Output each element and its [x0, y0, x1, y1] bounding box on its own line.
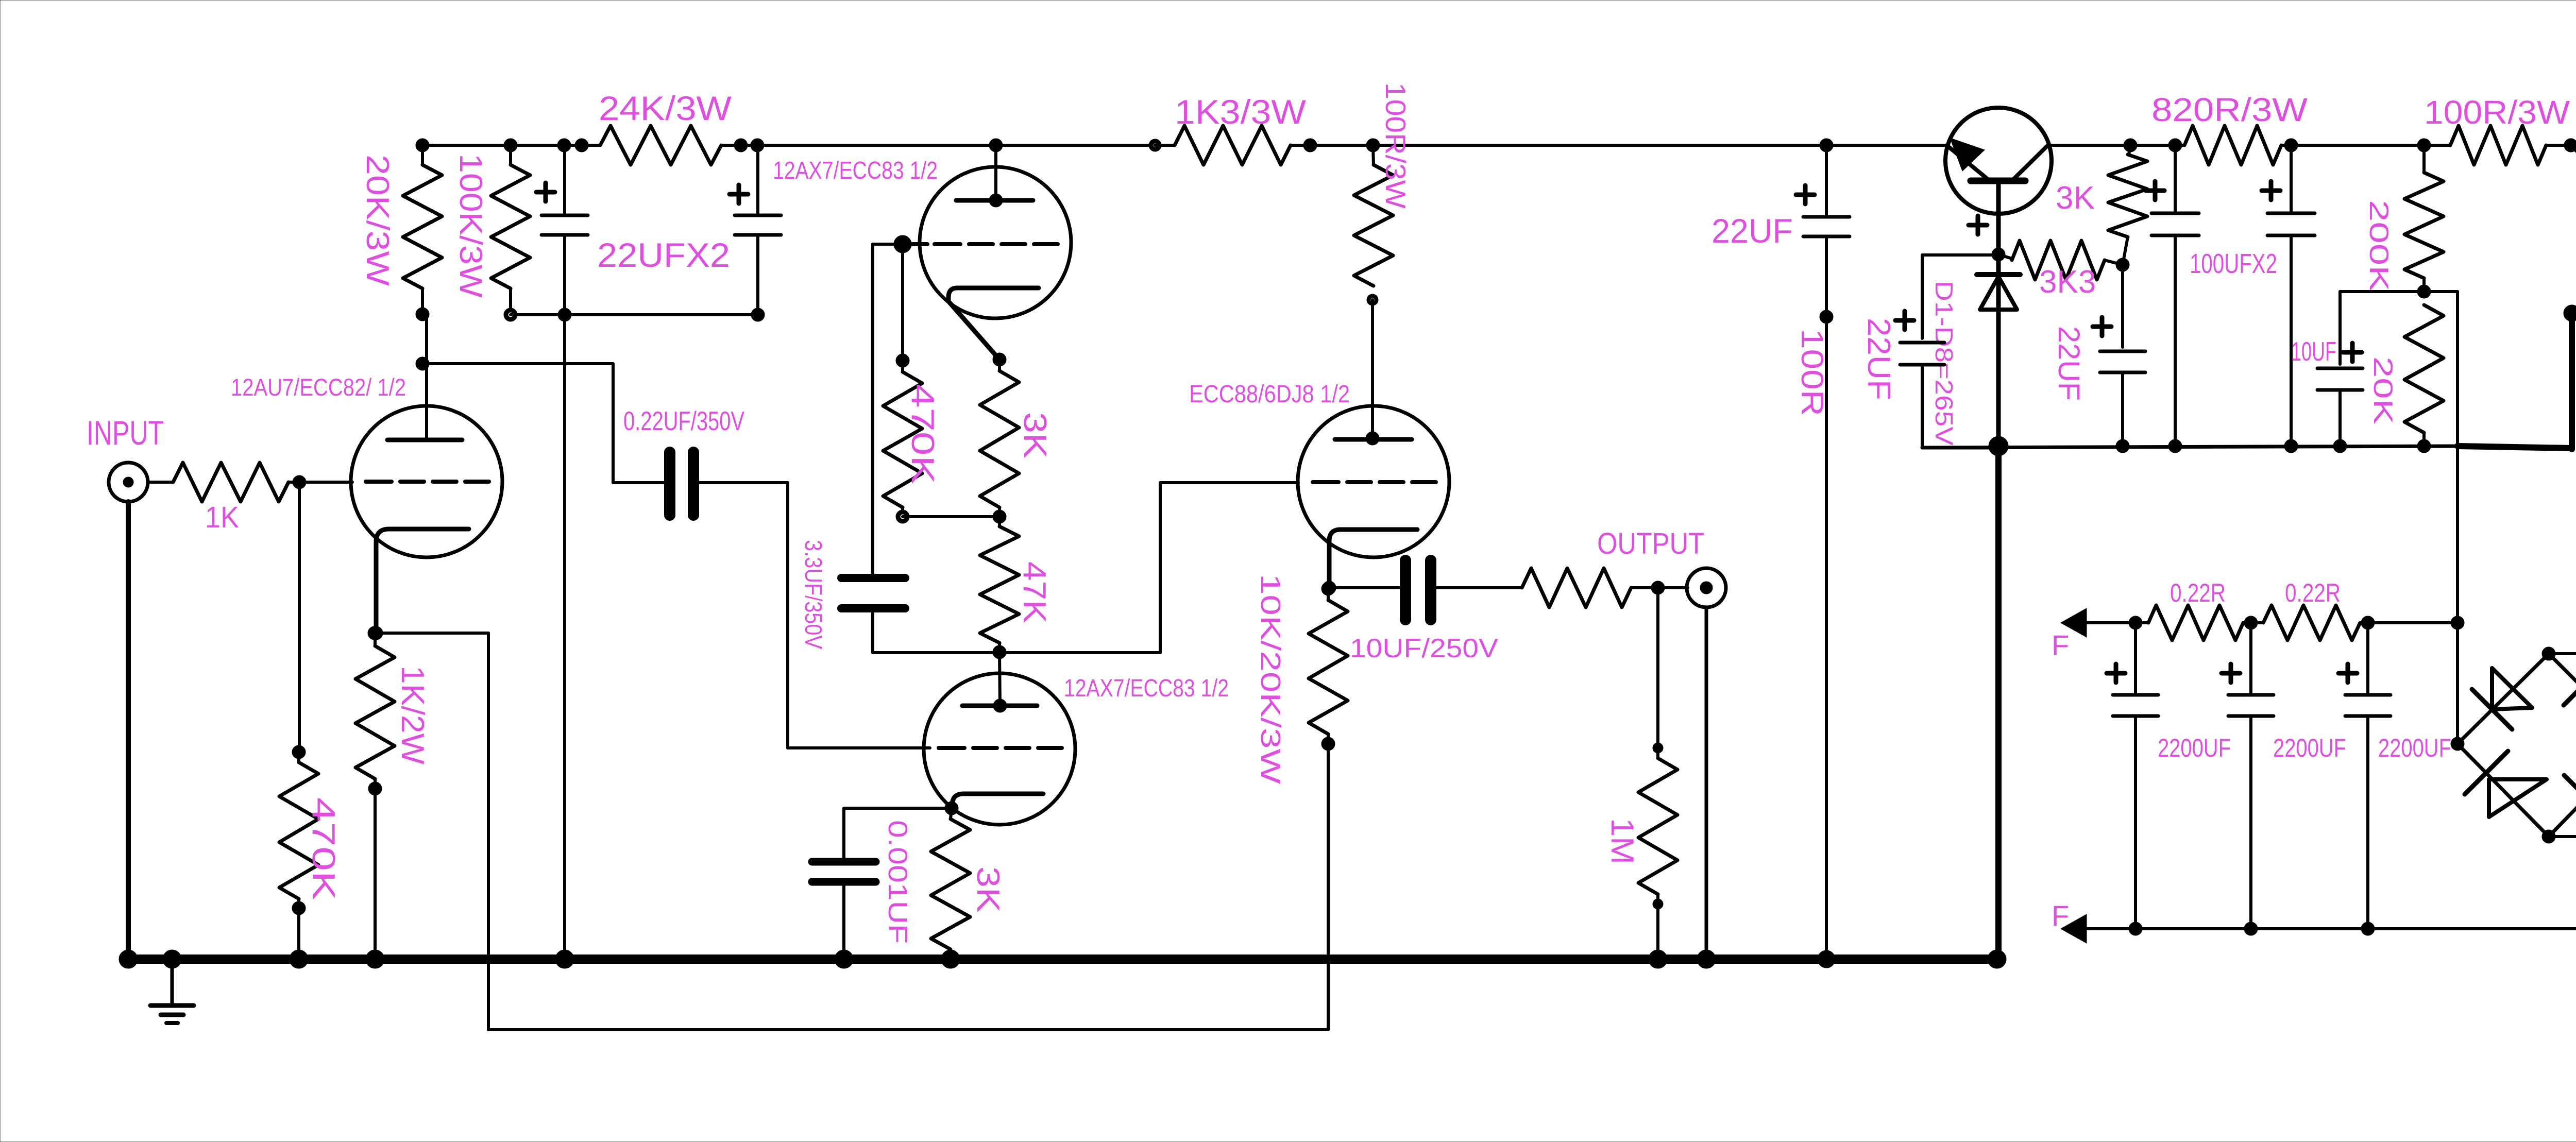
- capacitor 10UF (heater bias): [2291, 292, 2424, 446]
- svg-text:1K: 1K: [205, 501, 239, 534]
- svg-text:10UF/250V: 10UF/250V: [1350, 634, 1498, 663]
- capacitor 22UFX2 first: [536, 145, 588, 321]
- svg-text:0.22R: 0.22R: [2285, 578, 2341, 607]
- svg-text:22UF: 22UF: [1711, 212, 1793, 250]
- bridge heater diode TR: [2564, 666, 2576, 729]
- tube V4 ECC88/6DJ8 1/2: [1189, 381, 1449, 594]
- bridge heater diode BL: [2465, 751, 2547, 817]
- capacitor 100UFX2 second: [2190, 145, 2315, 446]
- resistor 100R/3W (ECC88 plate): [1354, 82, 1412, 438]
- wire grid node down: [896, 244, 909, 367]
- node rail junction dots left: [416, 139, 1833, 152]
- svg-text:22UF: 22UF: [2052, 326, 2086, 401]
- wire top B+ rail right section: [2048, 144, 2571, 147]
- bridge B+ diagonal TR-BL: [2572, 145, 2576, 313]
- svg-text:3K3: 3K3: [2039, 264, 2096, 300]
- svg-text:1K3/3W: 1K3/3W: [1175, 93, 1307, 131]
- bridge heater diode BR: [2564, 758, 2576, 819]
- svg-text:0.22R: 0.22R: [2170, 578, 2226, 607]
- resistor 100K/3W: [453, 145, 530, 321]
- resistor 0.22R second: [2251, 578, 2368, 640]
- capacitor 0.22UF/350V: [613, 406, 788, 515]
- ground symbol: [150, 959, 194, 1023]
- diode D1-D8=265V string: [1930, 275, 2020, 446]
- tube V3 12AX7/ECC83 1/2 (lower): [924, 673, 1229, 825]
- resistor 47K: [980, 517, 1052, 659]
- bridge B+ bottom edge diode: [2572, 292, 2576, 334]
- svg-text:ECC88/6DJ8 1/2: ECC88/6DJ8 1/2: [1189, 381, 1350, 408]
- capacitor 0.001UF: [812, 808, 952, 959]
- capacitor 10UF/250V: [1329, 560, 1522, 663]
- resistor 100R/3W (PSU): [2424, 94, 2571, 165]
- svg-text:F: F: [2052, 629, 2069, 661]
- svg-text:1K/2W: 1K/2W: [395, 666, 430, 764]
- capacitor 22UFX2 second: [597, 145, 781, 321]
- svg-text:22UFX2: 22UFX2: [597, 236, 730, 274]
- node ground rail dots: [119, 950, 1835, 968]
- wire top B+ rail left section: [422, 144, 1948, 147]
- svg-text:470K: 470K: [306, 797, 341, 900]
- transistor Q1 series regulator: [1945, 108, 2095, 446]
- svg-text:2200UF: 2200UF: [2273, 734, 2346, 762]
- svg-text:2200UF: 2200UF: [2158, 734, 2231, 762]
- resistor 24K/3W: [582, 89, 741, 165]
- wire heater bridge to winding top: [2549, 652, 2576, 655]
- svg-text:3.3UF/350V: 3.3UF/350V: [800, 540, 827, 649]
- svg-text:10K/20K/3W: 10K/20K/3W: [1255, 574, 1286, 784]
- wire 0.22UF to V3 grid: [788, 483, 930, 748]
- input jack INPUT: [87, 414, 164, 502]
- svg-text:47K: 47K: [1016, 561, 1052, 623]
- svg-text:100R/3W: 100R/3W: [1380, 82, 1412, 209]
- svg-text:20K: 20K: [2368, 356, 2398, 424]
- svg-text:200K: 200K: [2364, 200, 2394, 292]
- svg-text:3K: 3K: [970, 866, 1006, 913]
- svg-text:1M: 1M: [1604, 818, 1640, 864]
- wire feedback cathode run: [375, 633, 1328, 1030]
- wire divider to heater chain: [2424, 292, 2464, 744]
- wire cap bottom bus: [511, 313, 758, 316]
- capacitor 3.3UF/350V: [800, 540, 999, 653]
- svg-text:0.001UF: 0.001UF: [883, 820, 912, 944]
- wire 47K node to ECC88 grid: [999, 483, 1298, 653]
- resistor 200K: [2364, 145, 2444, 298]
- bridge B+ diagonal TL-BR: [2571, 145, 2576, 313]
- svg-text:100UFX2: 100UFX2: [2190, 248, 2277, 279]
- resistor 3K (V2 cathode): [980, 353, 1053, 523]
- wire 1K to 12AU7 grid: [299, 481, 352, 484]
- svg-text:3K: 3K: [2056, 180, 2095, 216]
- resistor 20K/3W: [360, 145, 442, 321]
- capacitor 22UF (base filter): [1861, 255, 1997, 448]
- output jack OUTPUT: [1597, 527, 1726, 959]
- tube V2 12AX7/ECC83 1/2 (upper): [773, 145, 1071, 360]
- wire input jack ground lead: [126, 502, 131, 955]
- svg-text:22UF: 22UF: [1861, 318, 1896, 400]
- svg-text:INPUT: INPUT: [87, 414, 164, 452]
- svg-text:OUTPUT: OUTPUT: [1597, 527, 1704, 560]
- wire 12AU7 plate to 0.22UF: [422, 364, 613, 483]
- capacitor 22UF (divider): [2052, 265, 2145, 453]
- resistor 1K3/3W: [1155, 93, 1310, 165]
- resistor output series: [1522, 568, 1665, 607]
- resistor 1M: [1604, 588, 1677, 959]
- svg-text:F: F: [2052, 899, 2069, 932]
- svg-text:100R/3W: 100R/3W: [2424, 94, 2570, 131]
- svg-text:100K/3W: 100K/3W: [453, 154, 488, 298]
- capacitor 100UFX2 first: [2146, 145, 2199, 446]
- wire thick D-node to ground: [1988, 446, 2006, 968]
- wire heater return rail: [2129, 922, 2576, 935]
- wire 470K-3K link: [903, 515, 999, 518]
- wire 47K node to V3 plate: [999, 653, 1000, 706]
- capacitor 2200UF second: [2222, 623, 2346, 929]
- wire heater chain: [2129, 616, 2458, 629]
- resistor 820R/3W: [2151, 91, 2308, 165]
- resistor 0.22R first: [2136, 578, 2251, 640]
- label 100R: [1795, 329, 1829, 416]
- wire ground rail: [128, 954, 1998, 964]
- tube V1 12AU7/ECC82 1/2: [231, 314, 502, 640]
- wire heater bridge to winding bottom: [2549, 835, 2576, 838]
- capacitor 2200UF third: [2338, 623, 2451, 929]
- resistor 470K (input): [279, 482, 341, 959]
- bridge heater diamond edges: [2451, 647, 2576, 843]
- node rail junction dots right: [2124, 139, 2576, 152]
- wire PSU mid bus: [1922, 313, 2572, 456]
- bridge B+ corner dots: [2564, 139, 2576, 321]
- svg-text:20K/3W: 20K/3W: [360, 155, 395, 286]
- svg-text:10UF: 10UF: [2291, 337, 2336, 367]
- svg-text:3K: 3K: [1017, 412, 1053, 458]
- wire grid node to 3.3UF: [873, 244, 903, 574]
- arrow F top: [2052, 608, 2136, 661]
- svg-text:2200UF: 2200UF: [2378, 734, 2451, 762]
- resistor 20K (heater bias): [2368, 305, 2444, 446]
- svg-text:12AU7/ECC82/ 1/2: 12AU7/ECC82/ 1/2: [231, 373, 406, 401]
- bridge heater diode TL: [2472, 668, 2532, 729]
- capacitor 22UF (B+ filter): [1711, 145, 1850, 959]
- resistor 3K (PSU divider): [2108, 145, 2147, 271]
- arrow F bottom: [2052, 899, 2136, 943]
- resistor 1K: [148, 463, 306, 534]
- resistor 10K/20K/3W: [1255, 574, 1348, 784]
- capacitor 2200UF first: [2107, 623, 2231, 929]
- svg-text:0.22UF/350V: 0.22UF/350V: [623, 406, 744, 436]
- resistor 3K (V3 cathode): [931, 808, 1006, 959]
- svg-text:470K: 470K: [905, 384, 940, 484]
- resistor 1K/2W: [355, 626, 430, 959]
- svg-text:12AX7/ECC83 1/2: 12AX7/ECC83 1/2: [773, 157, 938, 184]
- wire cap bus to ground: [563, 315, 566, 959]
- bridge B+ top edge diode: [2571, 124, 2576, 166]
- resistor 3K3: [1998, 241, 2123, 300]
- svg-text:100R: 100R: [1795, 329, 1829, 416]
- svg-text:12AX7/ECC83 1/2: 12AX7/ECC83 1/2: [1064, 675, 1229, 702]
- svg-text:820R/3W: 820R/3W: [2151, 91, 2308, 128]
- svg-text:24K/3W: 24K/3W: [599, 89, 732, 127]
- resistor 470K (V2 grid): [883, 361, 940, 523]
